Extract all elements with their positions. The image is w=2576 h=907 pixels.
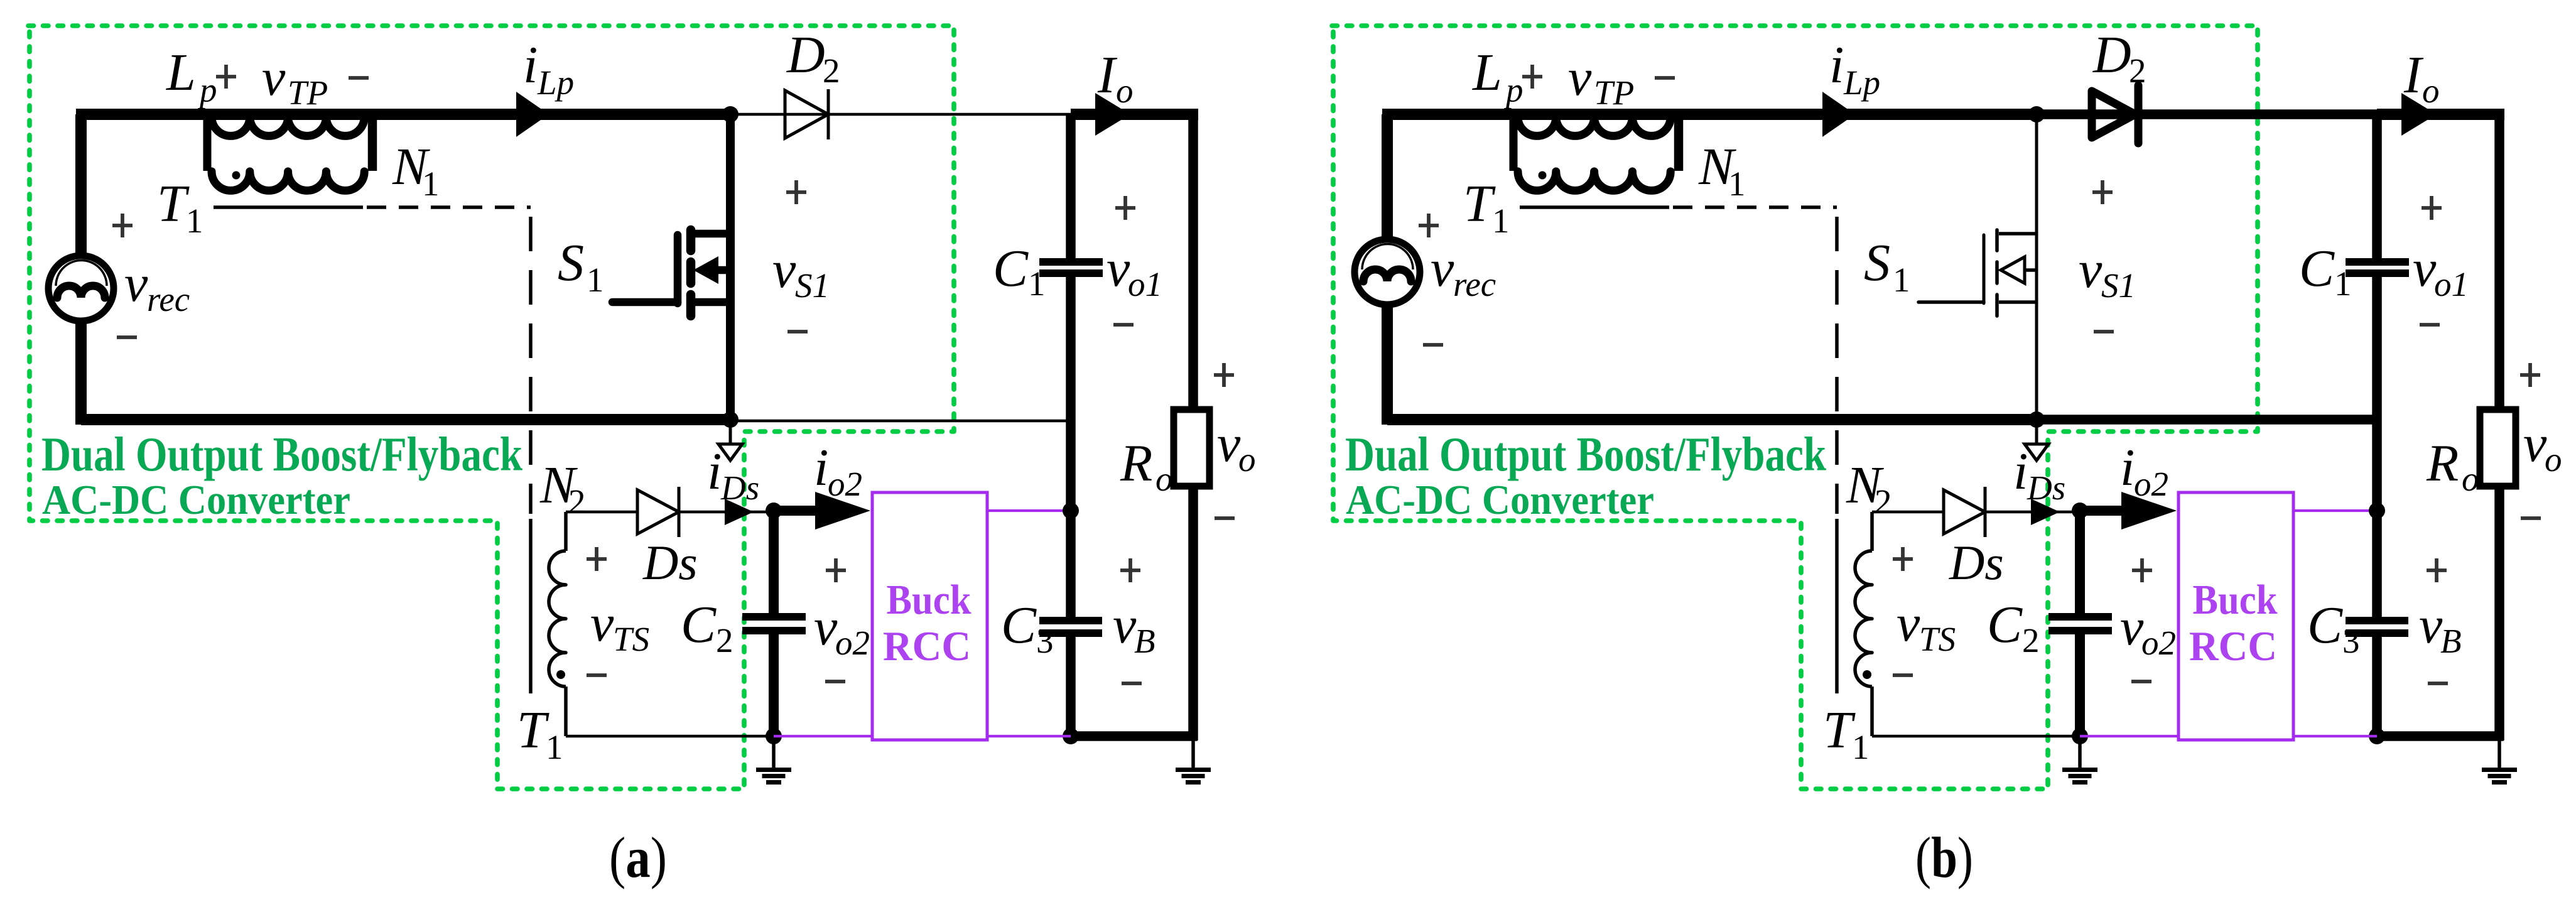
green dashed boundary box (a) — [28, 26, 954, 789]
svg-text:C: C — [1987, 595, 2023, 654]
svg-text:o: o — [1155, 460, 1173, 498]
capacitor C1 (a) — [993, 114, 1103, 617]
svg-text:C: C — [993, 239, 1029, 298]
svg-text:2: 2 — [716, 621, 733, 660]
svg-text:i: i — [1829, 36, 1844, 94]
winding N2 of transformer T1 (b) — [1823, 456, 1892, 766]
svg-text:v: v — [772, 241, 796, 299]
label vTP with polarity (a) — [216, 48, 369, 112]
svg-text:R: R — [2426, 434, 2459, 492]
svg-text:Dual Output Boost/Flyback: Dual Output Boost/Flyback — [1345, 427, 1826, 481]
label vo1 with polarity (a) — [1107, 196, 1162, 325]
svg-text:TS: TS — [613, 620, 649, 658]
svg-text:S1: S1 — [2101, 266, 2136, 305]
svg-text:C: C — [681, 595, 717, 654]
svg-text:o: o — [1238, 440, 1256, 479]
svg-text:Buck: Buck — [2193, 577, 2278, 623]
node: S1 source junction (a) — [722, 411, 739, 428]
wire: right branch (b) — [2494, 114, 2504, 741]
svg-text:rec: rec — [1453, 265, 1496, 303]
svg-text:o2: o2 — [2141, 624, 2176, 662]
svg-text:v: v — [124, 254, 148, 313]
current arrow iLp (a) — [516, 36, 574, 137]
winding N1 of transformer T1 (b) — [1513, 119, 1746, 203]
capacitor C3 (b) — [2307, 596, 2408, 741]
wire: left rail (b) — [1387, 114, 1589, 425]
svg-text:I: I — [1097, 46, 1118, 104]
svg-text:1: 1 — [1492, 202, 1510, 240]
svg-text:C: C — [2299, 239, 2335, 298]
svg-text:v: v — [2413, 239, 2437, 298]
label T1 (primary) (b) — [1463, 175, 1510, 240]
svg-text:Lp: Lp — [1843, 63, 1880, 102]
label vTS with polarity (a) — [587, 547, 649, 675]
wire: bottom output rail (a) — [1071, 731, 1198, 741]
resistor Ro (a) — [1120, 410, 1210, 498]
svg-text:v: v — [2419, 596, 2443, 654]
label vB with polarity (b) — [2419, 558, 2462, 683]
wire: secondary return to C2 node (a) — [566, 735, 774, 738]
label vo with polarity (b) — [2520, 363, 2562, 518]
svg-text:T: T — [517, 701, 549, 759]
svg-text:o2: o2 — [835, 624, 870, 662]
svg-text:Dual Output Boost/Flyback: Dual Output Boost/Flyback — [41, 427, 522, 481]
inductor Lp / primary winding of T1 (a) — [166, 43, 364, 136]
svg-text:T: T — [157, 175, 190, 233]
capacitor C2 (b) — [1987, 511, 2112, 736]
svg-text:TP: TP — [288, 73, 328, 112]
wire: top rail from vrec to S1/D2 node (b) — [1382, 109, 2037, 120]
label: Dual Output Boost/Flyback AC-DC Converter (a) — [41, 427, 522, 523]
Buck RCC converter block (a) — [872, 492, 987, 740]
svg-text:T: T — [1463, 175, 1496, 233]
node: C3 bottom junction (a) — [1063, 728, 1079, 744]
svg-text:1: 1 — [546, 728, 563, 766]
svg-text:AC-DC Converter: AC-DC Converter — [42, 477, 350, 523]
svg-text:2: 2 — [823, 52, 840, 90]
svg-text:Ds: Ds — [720, 469, 759, 507]
svg-text:S: S — [558, 234, 584, 292]
svg-text:B: B — [2440, 622, 2462, 660]
label vo1 with polarity (b) — [2413, 196, 2469, 325]
svg-text:(a): (a) — [609, 825, 667, 889]
node: C3 bottom junction (b) — [2369, 728, 2385, 744]
node: S1 source junction (b) — [2028, 411, 2045, 428]
svg-text:o: o — [1116, 72, 1134, 110]
current arrow iDs (b) — [2013, 420, 2065, 507]
svg-text:o2: o2 — [2134, 465, 2168, 503]
svg-text:D: D — [2092, 26, 2131, 84]
svg-text:1: 1 — [2334, 264, 2352, 303]
node: C2 bottom junction (a) — [766, 728, 782, 744]
label vo with polarity (a) — [1214, 363, 1256, 518]
capacitor C3 (a) — [1001, 596, 1102, 741]
svg-text:C: C — [2307, 596, 2343, 654]
svg-text:v: v — [1568, 48, 1592, 107]
label vS1 with polarity (b) — [2079, 180, 2136, 332]
svg-text:v: v — [1107, 239, 1130, 298]
svg-text:i: i — [2013, 442, 2028, 501]
svg-text:AC-DC Converter: AC-DC Converter — [1346, 477, 1654, 523]
current arrow Io (b) — [2401, 46, 2440, 136]
capacitor C1 (b) — [2299, 114, 2409, 617]
wire: top output rail (b) — [2377, 109, 2504, 120]
label T1 (primary) (a) — [157, 175, 203, 240]
diode D2 (b) — [2037, 26, 2377, 143]
label vo2 with polarity (a) — [814, 558, 870, 682]
diode Ds (a) — [566, 487, 774, 590]
svg-text:o: o — [2462, 460, 2479, 498]
svg-text:C: C — [1001, 596, 1037, 654]
svg-text:RCC: RCC — [883, 623, 971, 670]
svg-text:(b): (b) — [1915, 825, 1973, 889]
svg-text:v: v — [2523, 415, 2547, 473]
node: S1 drain junction (a) — [722, 106, 739, 122]
svg-text:v: v — [1431, 239, 1454, 298]
svg-text:R: R — [1120, 434, 1152, 492]
svg-text:rec: rec — [147, 280, 190, 318]
wire: bottom rail from vrec to S1 source node (b) — [1588, 414, 2037, 425]
dashed magnetic-core link of transformer T1 (b) — [1673, 207, 1837, 514]
diode D2 (a) — [730, 26, 1071, 139]
switch S1 (MOSFET) (b) — [1864, 114, 2037, 420]
svg-text:2: 2 — [1875, 482, 1892, 521]
svg-text:T: T — [1823, 701, 1856, 759]
svg-text:TS: TS — [1919, 620, 1956, 658]
solid core line of T1 (b) — [1520, 205, 1669, 209]
svg-text:v: v — [262, 48, 286, 107]
svg-text:L: L — [166, 43, 196, 102]
wire: secondary return to C2 node (b) — [1872, 735, 2080, 738]
wire: top rail from vrec to S1/D2 node (a) — [76, 109, 730, 120]
current arrow io2 (b) — [2080, 438, 2177, 530]
svg-text:o1: o1 — [1128, 265, 1162, 303]
caption (b) — [1915, 825, 1973, 889]
svg-text:1: 1 — [1852, 728, 1870, 766]
caption (a) — [609, 825, 667, 889]
wire: left rail (a) — [81, 114, 283, 425]
svg-text:i: i — [814, 438, 828, 497]
svg-text:RCC: RCC — [2189, 623, 2277, 670]
label vo2 with polarity (b) — [2120, 558, 2176, 682]
wire: bottom link S1 node to C1 branch (b) — [2037, 415, 2377, 425]
svg-text:v: v — [1217, 415, 1241, 473]
wire: Buck RCC links (violet) (a) — [774, 511, 1071, 736]
svg-text:o1: o1 — [2434, 265, 2469, 303]
svg-text:v: v — [1113, 596, 1137, 654]
svg-text:Buck: Buck — [887, 577, 972, 623]
svg-text:Ds: Ds — [642, 535, 698, 590]
current arrow iLp (b) — [1822, 36, 1880, 137]
svg-text:Ds: Ds — [2027, 469, 2065, 507]
green dashed boundary box (b) — [1332, 26, 2258, 789]
svg-text:S: S — [1864, 234, 1890, 292]
current arrow iDs (a) — [707, 420, 759, 507]
svg-text:i: i — [2120, 438, 2135, 497]
label vB with polarity (a) — [1113, 558, 1155, 683]
svg-text:1: 1 — [1893, 261, 1910, 299]
Buck RCC converter block (b) — [2178, 492, 2293, 740]
svg-text:1: 1 — [186, 202, 203, 240]
svg-text:1: 1 — [587, 261, 604, 299]
svg-text:2: 2 — [568, 482, 586, 521]
ground at Ro (b) — [2482, 736, 2517, 783]
current arrow Io (a) — [1095, 46, 1134, 136]
node: S1 drain junction (b) — [2028, 106, 2045, 122]
svg-text:1: 1 — [1728, 165, 1746, 203]
svg-text:1: 1 — [422, 165, 440, 203]
svg-text:1: 1 — [1028, 264, 1046, 303]
svg-text:B: B — [1134, 622, 1155, 660]
label: Dual Output Boost/Flyback AC-DC Converter (b) — [1345, 427, 1826, 523]
svg-text:2: 2 — [2129, 52, 2146, 90]
svg-text:2: 2 — [2022, 621, 2040, 660]
diode Ds (b) — [1872, 487, 2080, 590]
wire: bottom rail from vrec to S1 source node (a) — [281, 414, 730, 425]
ground at C2 (b) — [2062, 736, 2097, 783]
wire: Buck RCC links (violet) (b) — [2080, 511, 2377, 736]
wire: thin bottom link S1 node to C1 branch (a) — [730, 420, 1071, 423]
source vrec (rectified AC) (a) — [48, 214, 190, 337]
svg-text:3: 3 — [2342, 622, 2360, 660]
svg-text:i: i — [523, 36, 538, 94]
svg-text:TP: TP — [1594, 73, 1634, 112]
inductor Lp / primary winding of T1 (b) — [1472, 43, 1670, 136]
node: vB top junction (b) — [2369, 502, 2385, 519]
node: C2 top junction (b) — [2072, 502, 2088, 519]
svg-text:v: v — [590, 594, 614, 653]
label vTP with polarity (b) — [1522, 48, 1675, 112]
solid core line of T1 (a) — [214, 205, 363, 209]
label vTS with polarity (b) — [1893, 547, 1956, 675]
svg-text:v: v — [814, 598, 838, 656]
current arrow io2 (a) — [774, 438, 870, 530]
label vS1 with polarity (a) — [772, 180, 830, 332]
node: C2 top junction (a) — [766, 502, 782, 519]
svg-text:v: v — [1897, 594, 1920, 653]
resistor Ro (b) — [2426, 410, 2516, 498]
switch S1 (MOSFET) (a) — [558, 114, 730, 420]
svg-text:3: 3 — [1036, 622, 1054, 660]
svg-text:p: p — [1503, 71, 1523, 109]
svg-text:i: i — [707, 442, 722, 501]
svg-text:o: o — [2545, 440, 2562, 479]
svg-text:p: p — [197, 71, 217, 109]
svg-text:D: D — [786, 26, 825, 84]
dashed magnetic-core link of transformer T1 (a) — [367, 207, 531, 514]
svg-text:v: v — [2120, 598, 2144, 656]
svg-text:v: v — [2079, 241, 2102, 299]
wire: top output rail (a) — [1071, 109, 1198, 120]
svg-text:o2: o2 — [828, 465, 862, 503]
winding N2 of transformer T1 (a) — [517, 456, 586, 766]
node: vB top junction (a) — [1063, 502, 1079, 519]
wire: right branch (a) — [1188, 114, 1198, 741]
svg-text:o: o — [2422, 72, 2440, 110]
svg-text:Ds: Ds — [1949, 535, 2004, 590]
ground at C2 (a) — [756, 736, 791, 783]
ground at Ro (a) — [1176, 736, 1211, 783]
winding N1 of transformer T1 (a) — [207, 119, 440, 203]
node: C2 bottom junction (b) — [2072, 728, 2088, 744]
svg-text:Lp: Lp — [537, 63, 574, 102]
wire: bottom output rail (b) — [2377, 731, 2504, 741]
source vrec (rectified AC) (b) — [1355, 214, 1496, 345]
svg-text:L: L — [1472, 43, 1502, 102]
capacitor C2 (a) — [681, 511, 806, 736]
svg-text:S1: S1 — [795, 266, 830, 305]
svg-text:I: I — [2403, 46, 2424, 104]
